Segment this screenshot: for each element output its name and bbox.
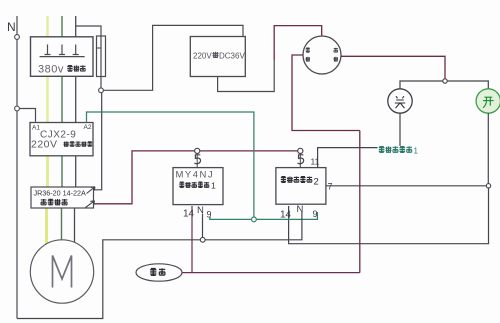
wire relay1 pin9squiggle down to bus bbox=[202, 214, 204, 240]
svg-text:14: 14 bbox=[183, 209, 195, 220]
label relay1 NO contact (zhongjianjidianqi1) teal bbox=[379, 146, 412, 152]
relay KA1 box MY4NJ bbox=[173, 168, 223, 205]
contactor KM box CJX2-9 bbox=[30, 123, 93, 156]
relay1 coil terminal circle bbox=[195, 148, 200, 153]
svg-text:14: 14 bbox=[280, 210, 292, 221]
wire common bus right to relay2 N bbox=[205, 212, 302, 240]
node N to contactor A1 bbox=[15, 106, 20, 111]
wire relay2 pin11 up and right to contact label bbox=[318, 148, 378, 168]
wire phase L2 green contactor to thermal bbox=[61, 156, 63, 187]
svg-text:N: N bbox=[197, 205, 204, 216]
start button kai circle bbox=[476, 89, 500, 113]
label fuqiu (float) bbox=[150, 268, 165, 275]
relay1 coil squiggle pin5 bbox=[196, 154, 198, 168]
wire fuse node down to thermal NC top bbox=[94, 93, 102, 190]
wire A2 teal to common bbox=[87, 112, 254, 217]
label rejidianqi (thermal relay) bbox=[41, 199, 68, 205]
relay2 coil terminal circle bbox=[298, 148, 303, 153]
node relay1 common junction bbox=[200, 237, 205, 242]
relay KA2 box zhongjianjidianqi2 bbox=[276, 168, 326, 205]
svg-text:7: 7 bbox=[328, 182, 333, 192]
wire phase L1 yellow breaker to contactor bbox=[46, 76, 49, 122]
wire phase L3 dark breaker to contactor bbox=[75, 76, 77, 122]
wire stop button bottom to relay1 contact label bbox=[399, 113, 401, 146]
wire phase L2 green breaker to contactor bbox=[61, 76, 63, 122]
label guan bbox=[395, 96, 405, 108]
wire N vertical line bbox=[16, 16, 18, 319]
wire N branch to contactor A1 bbox=[19, 109, 35, 122]
svg-text:2: 2 bbox=[314, 177, 319, 188]
breaker QF box 380V bbox=[31, 37, 94, 77]
svg-text:1: 1 bbox=[414, 147, 419, 156]
svg-text:JR36-20 14-22A: JR36-20 14-22A bbox=[34, 189, 87, 198]
wire node to start button top bbox=[447, 81, 488, 89]
wire phase L1 yellow thermal to motor bbox=[45, 208, 48, 244]
svg-text:9: 9 bbox=[313, 209, 318, 219]
wire phase L1 yellow top bbox=[46, 16, 48, 43]
svg-text:A2: A2 bbox=[84, 124, 92, 131]
svg-text:DC36V: DC36V bbox=[219, 52, 245, 61]
label zhongjianjidianqi2 bbox=[281, 177, 312, 183]
wire start button bottom to node7 bbox=[487, 113, 489, 186]
breaker bar bbox=[40, 56, 85, 58]
label zhongjianjidianqi1 bbox=[179, 182, 209, 188]
wire selector left to auto circuit bbox=[292, 55, 360, 131]
wire phase L1 yellow contactor to thermal bbox=[46, 156, 49, 187]
svg-text:380v: 380v bbox=[38, 64, 64, 76]
label jiaoliujiechuqi (AC contactor) bbox=[64, 141, 93, 146]
wire relay1 pin14 down to float junction purple bbox=[191, 206, 193, 273]
wire teal bus relay1 pin9 to relay2 pin9 bbox=[209, 212, 317, 219]
svg-text:220V: 220V bbox=[193, 52, 212, 61]
wire DC supply output to selector bbox=[218, 60, 275, 92]
wire node7 down and left to relay2 pin14 bbox=[289, 188, 489, 244]
svg-text:9: 9 bbox=[207, 210, 212, 220]
motor M circle bbox=[30, 240, 93, 303]
breaker pole ticks bbox=[45, 45, 79, 55]
label kai bbox=[483, 97, 494, 108]
wire phase L2 green top bbox=[61, 16, 63, 43]
svg-text:MY4NJ: MY4NJ bbox=[176, 170, 215, 181]
svg-text:N: N bbox=[7, 20, 16, 34]
wire relay2 pin7 to node bbox=[326, 185, 486, 187]
thermal NC arrow bottom bbox=[86, 201, 95, 208]
selector switch SA circle bbox=[303, 36, 341, 74]
node buttons junction bbox=[443, 79, 447, 83]
svg-text:220V: 220V bbox=[31, 139, 58, 151]
label M bbox=[53, 256, 72, 288]
wire selector right to buttons bbox=[341, 56, 445, 81]
node fuse output bbox=[99, 88, 104, 93]
svg-text:11: 11 bbox=[311, 157, 320, 167]
wire node to stop button top bbox=[400, 81, 443, 89]
wire fuse node to DC supply input bbox=[103, 25, 243, 90]
node teal junction bbox=[252, 217, 257, 222]
thermal NC arrow top bbox=[87, 187, 96, 194]
fuse wire through bbox=[100, 36, 102, 90]
fuse FU bbox=[97, 36, 106, 77]
relay2 coil squiggle pin5 bbox=[299, 154, 301, 168]
node start button holding junction bbox=[486, 184, 490, 188]
node on N line top bbox=[15, 35, 20, 40]
wire L3 tap to fuse bbox=[76, 26, 101, 36]
wire common bus left frame bbox=[17, 240, 200, 319]
power supply box 220V to DC36V bbox=[190, 37, 245, 77]
wire thermal NC to relay coil bus maroon bbox=[94, 151, 300, 204]
wire phase L3 dark top bbox=[75, 16, 77, 43]
wire float ball to auto bus purple bbox=[182, 272, 360, 274]
label duanluqi (breaker) bbox=[67, 65, 85, 71]
wire phase L3 dark thermal to motor bbox=[74, 208, 76, 243]
wire phase L2 green thermal to motor bbox=[61, 208, 63, 241]
stop button guan circle bbox=[388, 89, 412, 113]
svg-text:1: 1 bbox=[211, 181, 216, 191]
thermal relay FR box bbox=[31, 187, 94, 208]
label shoudong (manual) bbox=[334, 48, 339, 62]
wire phase L3 dark contactor to thermal bbox=[75, 156, 77, 187]
svg-text:N: N bbox=[297, 204, 304, 215]
fuse tick bbox=[97, 47, 102, 49]
label zidong (auto) bbox=[306, 48, 311, 62]
float switch ellipse bbox=[136, 264, 182, 281]
wire auto vertical bus down to float line bbox=[359, 131, 361, 273]
